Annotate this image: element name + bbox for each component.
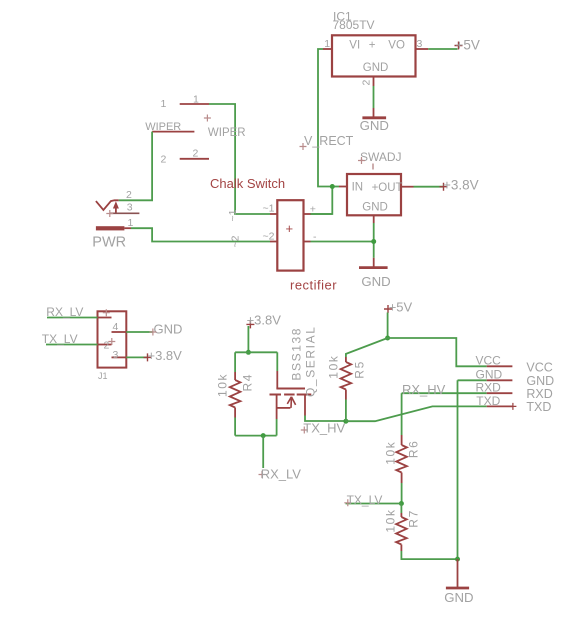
- wire down to RX_LV label: [262, 436, 264, 468]
- cross SWADJ origin: [358, 157, 365, 164]
- svg-text:RX_HV: RX_HV: [402, 382, 446, 397]
- wire +5V down: [387, 313, 389, 339]
- supply +5V right cross: [384, 305, 392, 313]
- wire +3.8V down to rail junction: [247, 326, 249, 352]
- resistor R5: [327, 355, 367, 400]
- pin 1 stub: [323, 48, 332, 50]
- transistor Q_SERIAL BSS138: [270, 326, 318, 420]
- svg-text:2: 2: [361, 80, 373, 86]
- J1 box: [98, 311, 127, 367]
- svg-text:WIPER: WIPER: [208, 127, 246, 139]
- wire J1 pin4 GND: [126, 331, 153, 333]
- pin stub ~1: [270, 213, 277, 215]
- jack center pin arrow: [115, 206, 117, 213]
- svg-text:rectifier: rectifier: [290, 278, 337, 293]
- wire rail to mosfet gate: [276, 352, 278, 371]
- jack sleeve pin 1: [96, 226, 125, 230]
- svg-text:TXD: TXD: [476, 394, 500, 408]
- wire SWADJ OUT to +3.8V: [414, 186, 444, 188]
- svg-text:~2: ~2: [230, 235, 242, 247]
- resistor R7: [384, 504, 421, 552]
- wire SWADJ GND down: [373, 223, 375, 258]
- svg-text:10k: 10k: [327, 355, 341, 379]
- node +3.8V rail junction: [246, 350, 251, 355]
- supply +5V cross: [455, 42, 463, 50]
- wire rail to R4 top: [234, 352, 236, 372]
- pin stub +: [304, 213, 311, 215]
- svg-text:GND: GND: [476, 368, 503, 382]
- wire R7 bottom to GND junction: [401, 551, 457, 559]
- wire VCC net: [388, 338, 487, 366]
- node V_RECT junction: [330, 184, 335, 189]
- svg-text:RX_LV: RX_LV: [261, 467, 302, 482]
- pin 3 red segment: [112, 356, 127, 358]
- svg-text:+3.8V: +3.8V: [148, 348, 183, 363]
- wire GND vertical: [457, 380, 459, 559]
- svg-text:~1: ~1: [227, 209, 239, 221]
- wire +5V junction diagonal to R5: [346, 338, 388, 357]
- wire IC1 pin2 to GND: [373, 86, 375, 108]
- wire mosfet drain to TX_HV: [305, 416, 346, 422]
- supply +3.8V cross: [440, 183, 448, 191]
- node TX_HV junction: [343, 419, 348, 424]
- cross jack origin: [106, 210, 113, 217]
- wire IC1 pin1 to V_RECT junction: [318, 49, 332, 187]
- svg-text:1: 1: [193, 94, 199, 106]
- svg-text:SWADJ: SWADJ: [360, 150, 402, 164]
- pin TXD stub: [487, 405, 513, 407]
- cross GND J1: [149, 329, 156, 336]
- wire TXD net with diagonal: [346, 406, 487, 421]
- wire wiper to jack pin2: [119, 132, 152, 201]
- pin stub -: [304, 241, 311, 243]
- svg-text:VI: VI: [349, 40, 360, 52]
- wire rectifier + up to junction: [311, 213, 333, 215]
- node RX_LV junction: [261, 433, 266, 438]
- potentiometer wiper pin: [145, 121, 194, 133]
- svg-text:TX_LV: TX_LV: [42, 332, 78, 346]
- pin VCC stub: [487, 365, 513, 367]
- pin stub GND: [373, 215, 375, 223]
- wire bottom bar: [235, 435, 277, 437]
- regulator IC1 box: [332, 35, 416, 76]
- node SWADJ gnd junction: [371, 239, 376, 244]
- svg-text:J1: J1: [98, 371, 108, 381]
- svg-text:+: +: [286, 221, 294, 236]
- svg-text:IN: IN: [352, 182, 364, 194]
- svg-text:BSS138: BSS138: [290, 327, 304, 381]
- svg-text:+: +: [369, 40, 376, 52]
- svg-text:TX_HV: TX_HV: [303, 421, 345, 436]
- wire V_RECT junction down to rectifier +: [310, 187, 332, 215]
- wire RXD down to R6: [401, 393, 403, 435]
- wire R4 bottom to bar: [234, 418, 236, 436]
- svg-text:+OUT: +OUT: [372, 182, 403, 194]
- svg-text:1: 1: [128, 217, 134, 229]
- svg-text:7805TV: 7805TV: [333, 18, 375, 32]
- svg-text:GND: GND: [362, 202, 388, 214]
- body arrow: [287, 397, 295, 408]
- svg-text:R4: R4: [241, 373, 255, 392]
- gate bar: [276, 388, 305, 390]
- svg-text:2: 2: [161, 154, 167, 166]
- svg-text:RX_LV: RX_LV: [46, 305, 83, 319]
- ground bottom: [444, 559, 473, 605]
- svg-text:+3.8V: +3.8V: [443, 178, 479, 193]
- potentiometer chalk switch pin 1: [161, 94, 210, 111]
- svg-text:4: 4: [113, 321, 119, 333]
- pin RXD stub: [487, 392, 513, 394]
- pin 3 stub: [416, 48, 429, 50]
- power jack PWR: [92, 189, 139, 250]
- node +5V junction: [385, 336, 390, 341]
- cross TXD end: [509, 403, 516, 410]
- svg-text:+3.8V: +3.8V: [247, 313, 282, 328]
- wire IC1 pin3 to +5V: [428, 48, 457, 50]
- svg-text:~1: ~1: [263, 203, 275, 215]
- svg-text:GND: GND: [360, 118, 389, 133]
- wire J1 pin2 TX_LV: [46, 344, 98, 346]
- potentiometer pin 2: [161, 148, 210, 166]
- svg-text:3: 3: [127, 202, 133, 214]
- svg-text:R5: R5: [353, 360, 367, 379]
- wire junction to SWADJ IN: [332, 186, 339, 188]
- wire J1 pin3 +3.8V: [126, 356, 147, 358]
- pin GND stub: [487, 379, 513, 381]
- svg-text:Chalk Switch: Chalk Switch: [210, 176, 285, 191]
- rectifier B1: [227, 200, 337, 292]
- svg-text:RXD: RXD: [476, 381, 502, 395]
- jack pin 3 line: [110, 212, 139, 214]
- svg-text:1: 1: [161, 98, 167, 110]
- node TX_LV junction: [399, 501, 404, 506]
- ground under SWADJ: [359, 258, 391, 289]
- svg-text:GND: GND: [526, 374, 554, 388]
- wire jack pin1 to rectifier ~2: [131, 228, 270, 241]
- drain leg: [304, 395, 306, 416]
- wire mosfet source down to bar: [276, 419, 278, 436]
- wire J1 pin1 RX_LV: [47, 317, 98, 319]
- cross J1 pin1: [103, 309, 110, 316]
- connector J1: [98, 309, 127, 381]
- wire rail bar: [235, 351, 277, 353]
- wire rectifier - to SWADJ gnd junction: [311, 241, 374, 243]
- jack switch contact V: [96, 200, 119, 210]
- wire TX_LV label: [346, 503, 402, 505]
- cross V_RECT origin: [300, 143, 307, 150]
- svg-text:GND: GND: [444, 590, 473, 605]
- svg-text:+5V: +5V: [389, 300, 413, 315]
- op-amp U1: [323, 10, 428, 87]
- node GND junction: [455, 557, 460, 562]
- svg-text:2: 2: [126, 189, 132, 201]
- svg-text:GND: GND: [154, 322, 183, 337]
- svg-text:10k: 10k: [384, 508, 398, 532]
- resistor R6: [384, 435, 421, 483]
- svg-text:+5V: +5V: [456, 38, 480, 53]
- pin 2 red segment: [98, 344, 112, 346]
- wire RXD net: [402, 392, 487, 394]
- cross TX_LV: [344, 499, 351, 506]
- wire GND net: [458, 379, 487, 381]
- svg-text:3: 3: [113, 349, 119, 361]
- cross J1 pin2: [108, 338, 115, 345]
- svg-text:TX_LV: TX_LV: [347, 493, 383, 507]
- resistor R4: [216, 372, 255, 418]
- source bar: [277, 407, 291, 409]
- SWADJ box: [347, 174, 401, 215]
- pin 4 red segment: [112, 331, 127, 333]
- svg-text:10k: 10k: [384, 441, 398, 465]
- svg-text:~2: ~2: [263, 231, 275, 243]
- svg-text:GND: GND: [361, 274, 390, 289]
- wire R5 bottom to TX_HV junction: [345, 400, 347, 422]
- rectifier box: [277, 200, 303, 270]
- svg-text:V_RECT: V_RECT: [304, 134, 354, 148]
- pin stub OUT: [401, 186, 414, 188]
- svg-text:VCC: VCC: [476, 354, 502, 368]
- ground under IC1: [360, 108, 389, 133]
- cross WIPER origin: [204, 115, 211, 122]
- svg-text:10k: 10k: [216, 373, 230, 397]
- svg-text:Q_SERIAL: Q_SERIAL: [304, 326, 318, 398]
- svg-text:2: 2: [193, 148, 199, 160]
- channel dashed: [270, 394, 312, 396]
- supply +3.8V above R4: [246, 320, 254, 328]
- svg-text:R6: R6: [407, 440, 421, 459]
- svg-text:PWR: PWR: [92, 234, 126, 250]
- pin stub IN: [339, 186, 347, 188]
- svg-text:VO: VO: [388, 40, 405, 52]
- wire R6 bottom to TX_LV junction: [401, 483, 403, 504]
- svg-text:RXD: RXD: [526, 387, 552, 401]
- cross part origin: [372, 164, 374, 170]
- regulator SWADJ: [339, 150, 414, 223]
- svg-text:WIPER: WIPER: [145, 121, 181, 133]
- wire pot pin1 to rectifier ~1: [209, 104, 270, 214]
- cross RX_LV: [259, 471, 266, 478]
- pin 1 red segment: [98, 317, 112, 319]
- cross TX_HV: [301, 427, 308, 434]
- svg-text:VCC: VCC: [526, 361, 552, 375]
- svg-text:R7: R7: [407, 509, 421, 528]
- gate stub: [276, 371, 278, 389]
- pin 2 stub: [373, 77, 375, 87]
- source leg: [276, 395, 278, 420]
- supply +3.8V cross J1: [144, 353, 152, 361]
- svg-text:GND: GND: [363, 62, 389, 74]
- svg-text:TXD: TXD: [526, 400, 551, 414]
- pin stub ~2: [270, 241, 277, 243]
